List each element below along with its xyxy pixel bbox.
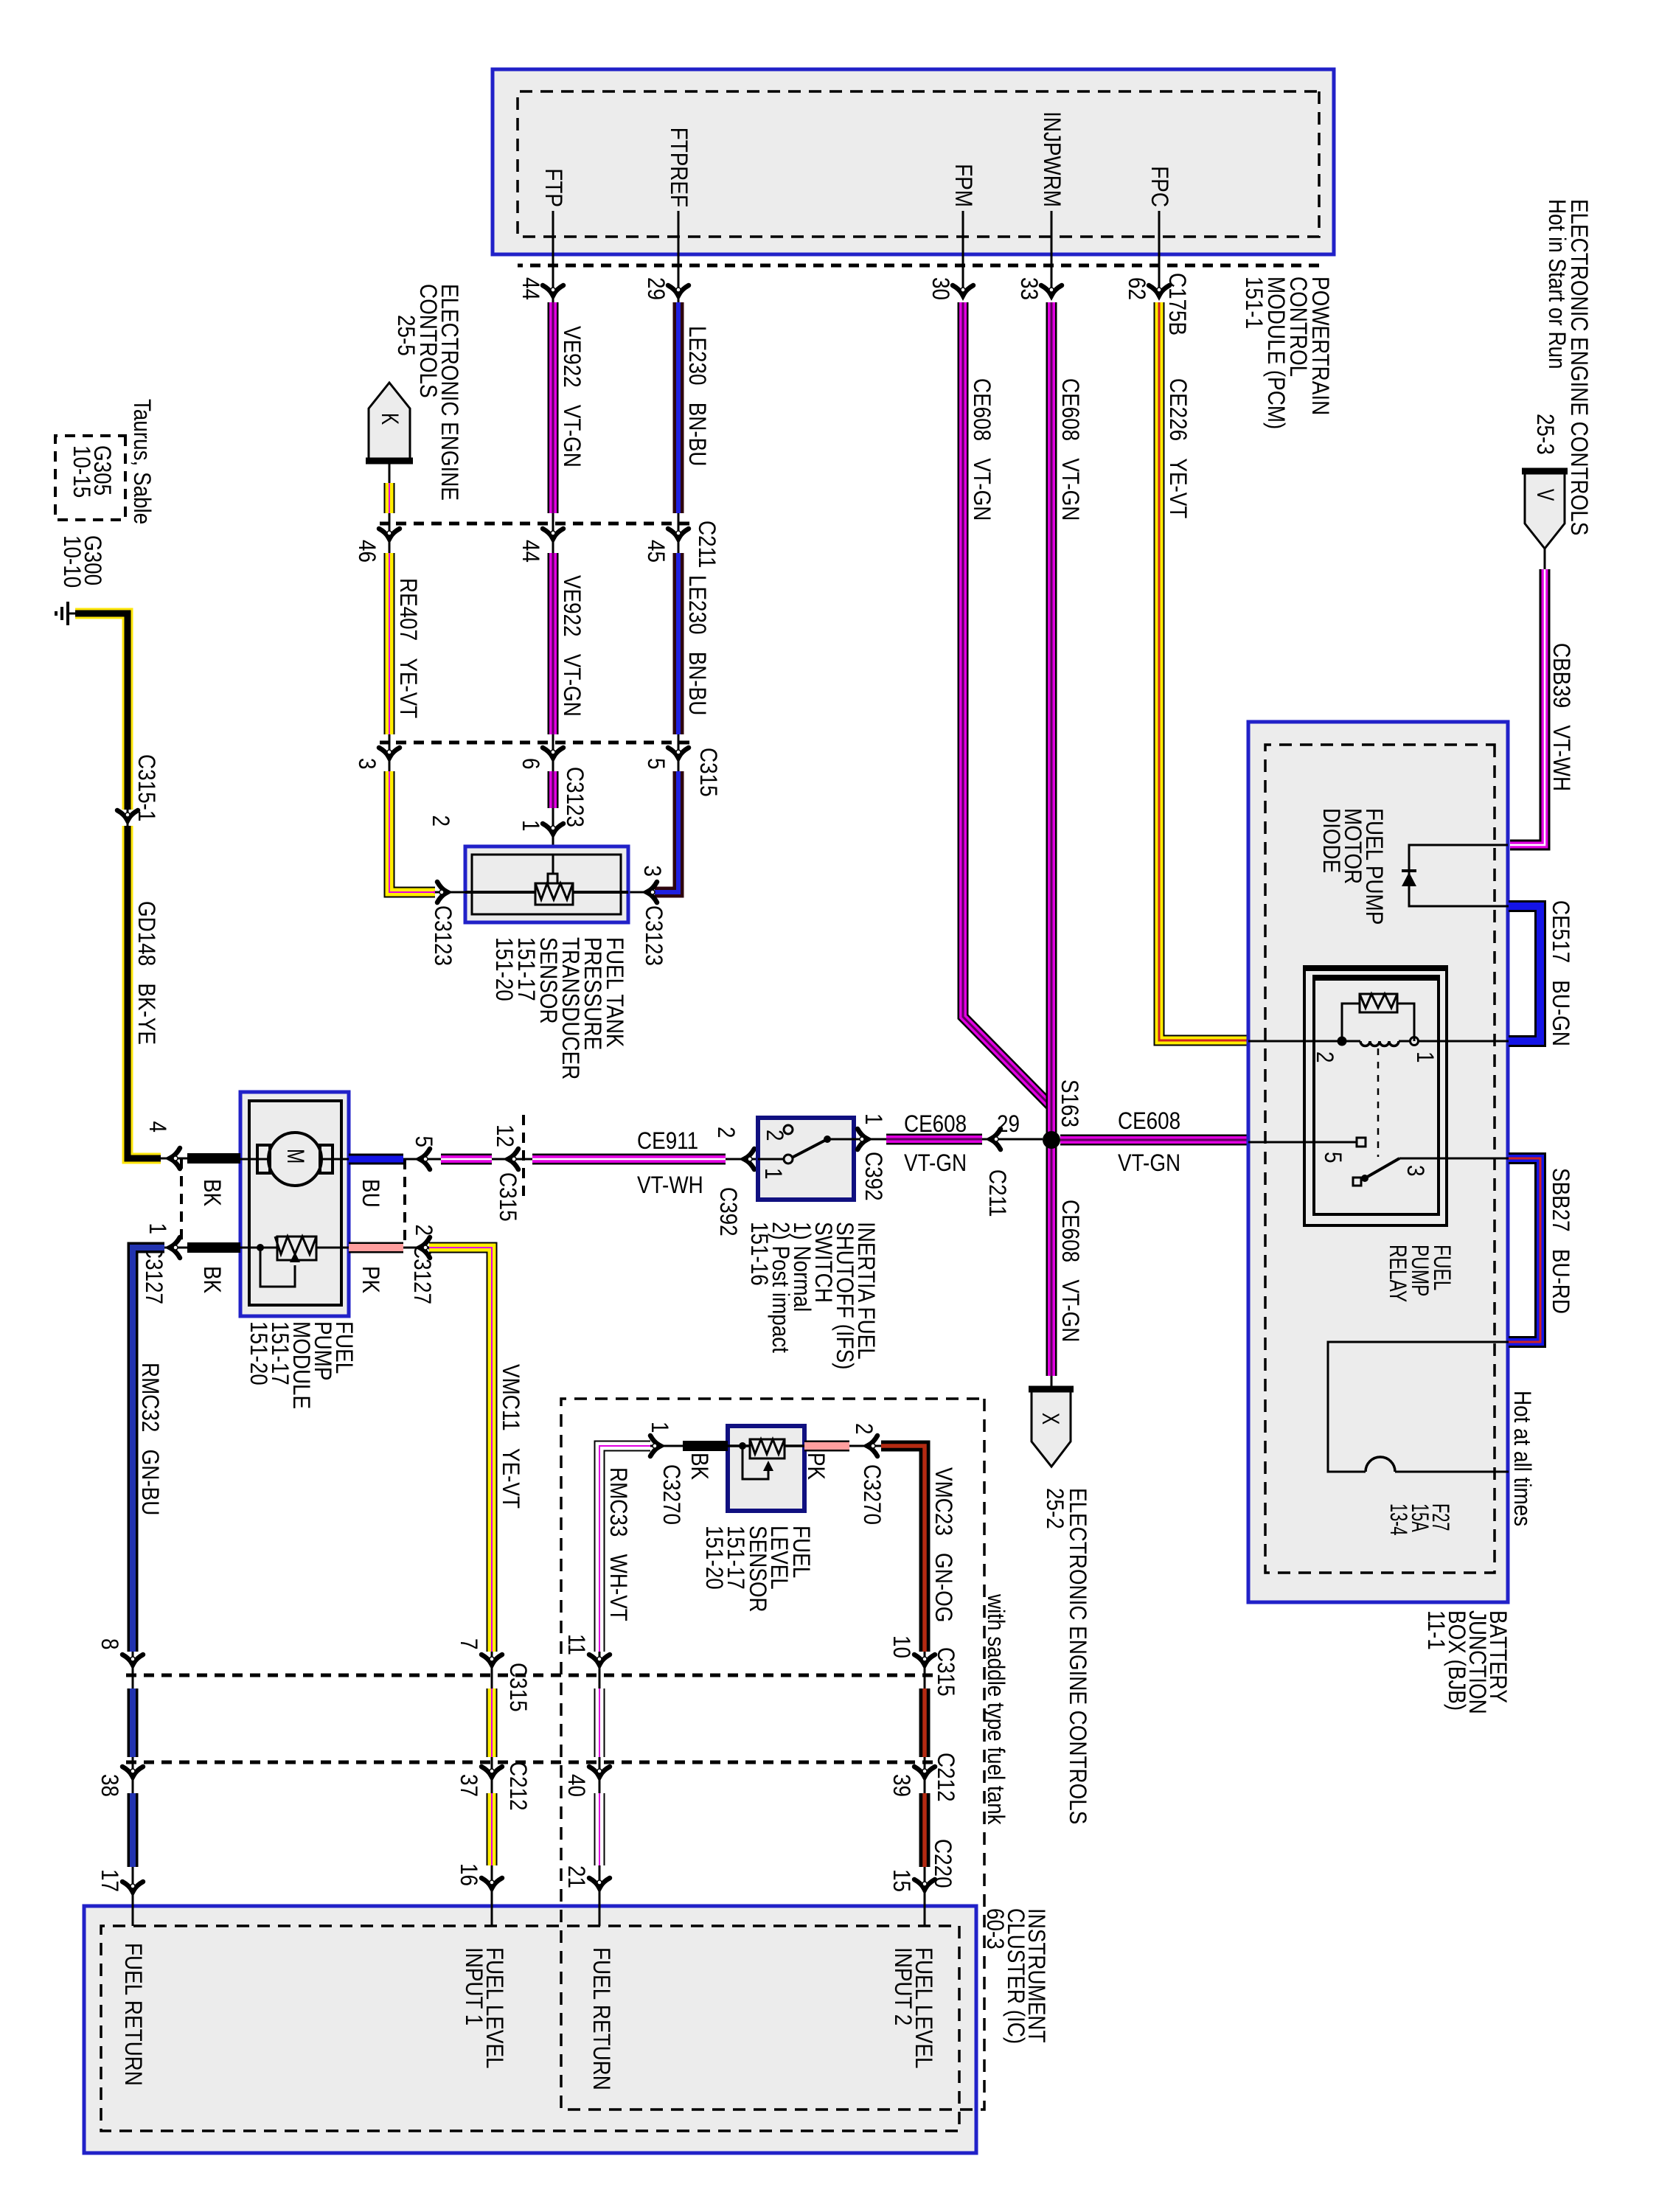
wire CE226 YE-VT (FPC pin 62) to BJB [1159, 302, 1247, 1040]
svg-text:with saddle type fuel tank: with saddle type fuel tank [983, 1593, 1009, 1825]
svg-text:15: 15 [888, 1869, 915, 1892]
svg-text:C315-1: C315-1 [133, 754, 160, 821]
svg-text:CE608: CE608 [904, 1110, 967, 1137]
svg-text:FUEL RETURN: FUEL RETURN [120, 1943, 147, 2086]
svg-text:11-1: 11-1 [1423, 1610, 1450, 1650]
svg-text:C211: C211 [984, 1169, 1011, 1217]
wire VMC11 segment 3 [487, 1793, 498, 1865]
wire CE608 VT-GN (INJPWRM pin 33) to S163 and on to X [1046, 302, 1057, 1376]
relay pin 5 [1248, 1141, 1357, 1144]
fuel sender variable resistor [240, 1247, 349, 1249]
box INSTRUMENT CLUSTER (IC) [84, 1906, 976, 2153]
off-page connector K [366, 383, 413, 461]
svg-text:2: 2 [1312, 1051, 1338, 1063]
svg-text:30: 30 [928, 277, 954, 300]
splice S163 [1043, 1131, 1060, 1149]
connector C211 (pin 29) [985, 1129, 1001, 1150]
svg-text:17: 17 [97, 1869, 123, 1892]
svg-text:8: 8 [97, 1638, 123, 1650]
svg-text:ELECTRONIC ENGINE CONTROLS: ELECTRONIC ENGINE CONTROLS [1065, 1488, 1091, 1824]
svg-text:VT-GN: VT-GN [904, 1150, 967, 1176]
svg-text:BK: BK [199, 1179, 226, 1206]
svg-text:S163: S163 [1057, 1079, 1083, 1127]
FLS resistor [750, 1439, 785, 1458]
pin 2 wire PK [349, 1242, 403, 1253]
IFS internals [758, 1158, 783, 1161]
wire RMC33 WH-VT [599, 1446, 650, 1652]
box with saddle type fuel tank (dashed) [561, 1399, 984, 2110]
svg-text:PK: PK [358, 1266, 384, 1293]
wire LE230 BN-BU segment 1 [673, 302, 684, 513]
svg-text:45: 45 [643, 540, 669, 563]
svg-text:1: 1 [860, 1113, 887, 1125]
svg-text:LE230 BN-BU: LE230 BN-BU [684, 326, 711, 466]
box BATTERY JUNCTION BOX (BJB) [1248, 722, 1508, 1602]
connector line C175B (dashed) [518, 264, 1319, 268]
svg-text:C392: C392 [860, 1152, 887, 1201]
connector C3127 dashed links [180, 1158, 183, 1248]
svg-text:RMC33 WH-VT: RMC33 WH-VT [605, 1467, 632, 1621]
svg-text:C3123: C3123 [641, 905, 667, 966]
svg-text:5: 5 [1320, 1152, 1346, 1164]
wire VMC23 segment 2 [914, 1655, 935, 1670]
pin 2 wire (bottom) [444, 891, 465, 894]
svg-text:3: 3 [354, 758, 380, 770]
svg-text:1: 1 [647, 1422, 673, 1433]
svg-text:FTP: FTP [540, 168, 567, 207]
sensor FUEL TANK PRESSURE TRANSDUCER box [465, 846, 628, 922]
svg-text:CBB39 VT-WH: CBB39 VT-WH [1548, 643, 1575, 791]
wire CE911 VT-WH segment b [532, 1154, 726, 1165]
svg-text:GD148 BK-YE: GD148 BK-YE [133, 901, 160, 1045]
diode FUEL PUMP MOTOR DIODE [1402, 869, 1416, 872]
FLS pin 2 wire PK [804, 1441, 849, 1452]
svg-text:10-10: 10-10 [59, 535, 86, 588]
svg-text:C212: C212 [505, 1761, 532, 1811]
svg-text:39: 39 [888, 1774, 915, 1797]
wire LE230 BN-BU segment 2 [673, 553, 684, 734]
svg-text:C212: C212 [933, 1753, 959, 1802]
svg-text:Hot at all times: Hot at all times [1509, 1391, 1536, 1526]
wiper square and pin 1 line [548, 874, 557, 883]
wire CE608 VT-GN (FPM pin 30) with diagonal merge [963, 302, 1050, 1105]
svg-text:12: 12 [492, 1124, 518, 1147]
svg-text:2: 2 [411, 1225, 437, 1237]
svg-text:C315: C315 [695, 748, 722, 797]
svg-text:151-1: 151-1 [1241, 276, 1267, 329]
svg-text:CE608: CE608 [1118, 1107, 1180, 1134]
connector line C211 (dashed) [380, 522, 689, 526]
svg-text:CE517 BU-GN: CE517 BU-GN [1548, 900, 1574, 1046]
svg-text:X: X [1037, 1413, 1064, 1425]
wire RE407 YE-VT segment 2 [384, 553, 395, 734]
svg-text:RELAY: RELAY [1385, 1245, 1411, 1302]
svg-text:SBB27 BU-RD: SBB27 BU-RD [1548, 1168, 1574, 1314]
motor M symbol [318, 1158, 349, 1161]
svg-text:C3270: C3270 [859, 1464, 886, 1525]
resistor element [535, 883, 573, 905]
wire RE407 corner segment to sensor pin 2 [389, 887, 435, 898]
relay switch arm pin 3 [1361, 1175, 1368, 1182]
svg-text:FUEL RETURN: FUEL RETURN [588, 1947, 615, 2090]
wire LE230 segment 3 with corner to sensor pin 3 [655, 771, 678, 892]
svg-text:7: 7 [456, 1638, 482, 1650]
svg-text:151-16: 151-16 [746, 1222, 773, 1286]
svg-text:1: 1 [1412, 1051, 1439, 1063]
svg-text:BU: BU [358, 1179, 384, 1208]
svg-text:C392: C392 [715, 1187, 742, 1237]
svg-text:VMC23 GN-OG: VMC23 GN-OG [931, 1467, 957, 1622]
wire VE922 VT-GN segment 2 [548, 553, 559, 734]
svg-text:40: 40 [563, 1774, 590, 1797]
connector line C212 (dashed) [122, 1761, 933, 1764]
svg-text:44: 44 [518, 277, 544, 300]
svg-text:29: 29 [997, 1110, 1020, 1137]
FLS pin 1 wire BK [683, 1441, 728, 1451]
svg-text:13-4: 13-4 [1385, 1503, 1412, 1536]
svg-text:V: V [1532, 489, 1559, 501]
svg-text:10: 10 [888, 1635, 915, 1658]
relay coil line [1399, 1040, 1509, 1043]
svg-text:VE922 VT-GN: VE922 VT-GN [559, 575, 585, 717]
svg-text:25-5: 25-5 [393, 315, 420, 356]
connector CE517 BU-GN [1509, 906, 1540, 1041]
connector C315-1 [117, 810, 138, 826]
svg-text:62: 62 [1124, 277, 1150, 300]
svg-text:VMC11 YE-VT: VMC11 YE-VT [498, 1364, 524, 1509]
svg-text:BK: BK [686, 1453, 713, 1480]
svg-text:M: M [282, 1149, 309, 1164]
wire CE911 VT-WH segment a [441, 1154, 492, 1165]
svg-text:FPC: FPC [1147, 166, 1173, 207]
ground wire GD148 BK-YE segment 1 [75, 613, 128, 810]
svg-text:2: 2 [851, 1423, 877, 1435]
switch INERTIA FUEL SHUTOFF (IFS) box [758, 1118, 854, 1200]
wire RMC32 GN-BU [133, 1248, 164, 1652]
svg-text:C211: C211 [694, 521, 720, 568]
relay FUEL PUMP RELAY box [1304, 968, 1447, 1225]
svg-text:RMC32 GN-BU: RMC32 GN-BU [137, 1363, 164, 1515]
wire VE922 segment 3 to C3123 [548, 771, 559, 808]
svg-text:6: 6 [518, 758, 544, 770]
svg-text:INPUT 2: INPUT 2 [890, 1947, 917, 2025]
svg-text:RE407 YE-VT: RE407 YE-VT [395, 578, 422, 718]
connector C315 (pin 12) [522, 1115, 525, 1203]
svg-text:FPM: FPM [950, 164, 977, 207]
svg-text:5: 5 [411, 1136, 437, 1148]
svg-text:C3123: C3123 [562, 767, 588, 827]
sensor FUEL LEVEL SENSOR box [728, 1426, 804, 1511]
pin 5 wire BU [349, 1154, 403, 1165]
svg-text:INJPWRM: INJPWRM [1039, 111, 1065, 207]
IC pin stubs [132, 1896, 134, 1926]
svg-text:PK: PK [803, 1453, 829, 1480]
module PCM box [493, 69, 1334, 254]
wire RE407 YE-VT segment 3 corner to sensor pin 2 [389, 771, 434, 892]
svg-text:1: 1 [760, 1168, 787, 1180]
svg-text:151-20: 151-20 [491, 937, 518, 1001]
svg-text:25-2: 25-2 [1042, 1488, 1068, 1529]
wire VMC11 YE-VT [429, 1248, 492, 1652]
svg-text:C315: C315 [505, 1663, 532, 1712]
wire CBB39 VT-WH [1510, 569, 1545, 845]
svg-text:2: 2 [428, 815, 454, 827]
connector line C315 (bottom, dashed) [122, 1674, 933, 1677]
svg-text:44: 44 [518, 540, 544, 563]
svg-text:29: 29 [643, 277, 669, 300]
svg-text:38: 38 [97, 1774, 123, 1797]
svg-text:CE608 VT-GN: CE608 VT-GN [969, 378, 995, 521]
wire RMC32 segment 2 [122, 1655, 143, 1670]
svg-text:16: 16 [456, 1863, 482, 1886]
svg-text:25-3: 25-3 [1532, 414, 1559, 455]
svg-text:C315: C315 [495, 1172, 521, 1222]
svg-text:Taurus, Sable: Taurus, Sable [129, 399, 156, 524]
off-page connector X [1029, 1389, 1074, 1467]
wire stub from V [1544, 549, 1546, 569]
wire RMC32 segment 3 [128, 1793, 139, 1867]
wire VMC11 segment 2 [481, 1655, 502, 1670]
pin 1 wire BK [187, 1242, 240, 1253]
svg-text:BK: BK [199, 1266, 226, 1293]
svg-text:21: 21 [563, 1865, 590, 1888]
connector line C315 (dashed) [380, 741, 689, 745]
wire VMC23 segment 3 [919, 1793, 931, 1867]
svg-text:11: 11 [563, 1634, 590, 1655]
wire RMC33 segment 2 [589, 1655, 610, 1670]
wire VE922 VT-GN segment 1 [548, 302, 559, 513]
off-page connector V [1522, 471, 1568, 549]
svg-text:2: 2 [713, 1127, 740, 1138]
pin 4 wire BK [187, 1153, 240, 1164]
svg-text:LE230 BN-BU: LE230 BN-BU [684, 575, 711, 715]
svg-text:K: K [377, 413, 403, 425]
svg-text:1: 1 [145, 1223, 171, 1235]
ground wire GD148 BK-YE segment 2 [128, 826, 161, 1158]
svg-text:CE608 VT-GN: CE608 VT-GN [1057, 1200, 1084, 1342]
svg-text:33: 33 [1016, 277, 1043, 300]
wire stub to X connector [1051, 1376, 1053, 1389]
svg-text:1: 1 [518, 820, 544, 832]
wire RE407 YE-VT segment 1 [384, 483, 395, 513]
svg-text:4: 4 [145, 1121, 171, 1133]
svg-text:5: 5 [643, 758, 669, 770]
ground G300 [68, 613, 75, 615]
sensor main line [465, 891, 628, 894]
svg-text:Hot in Start or Run: Hot in Start or Run [1544, 199, 1571, 369]
svg-text:151-20: 151-20 [246, 1321, 272, 1385]
svg-text:2: 2 [762, 1130, 788, 1141]
svg-text:C3270: C3270 [658, 1464, 685, 1525]
wire CE608 VT-GN (IFS to S163) [886, 1134, 982, 1145]
diode loop wire [1409, 845, 1509, 906]
svg-text:CE911: CE911 [637, 1127, 698, 1154]
wire VMC23 GN-OG [881, 1446, 925, 1652]
fuse F27 circuit [1328, 1342, 1509, 1472]
relay actuation dashed [1377, 1048, 1380, 1157]
svg-text:FTPREF: FTPREF [666, 128, 692, 207]
wire RMC33 segment 3 [594, 1793, 605, 1865]
svg-text:C175B: C175B [1164, 273, 1191, 335]
wire CE608 VT-GN (S163 to BJB relay) [1060, 1135, 1247, 1146]
svg-text:C3123: C3123 [430, 905, 456, 966]
svg-text:3: 3 [1402, 1165, 1429, 1177]
svg-text:46: 46 [354, 540, 380, 563]
svg-text:VT-WH: VT-WH [637, 1172, 703, 1198]
svg-text:VE922 VT-GN: VE922 VT-GN [559, 326, 585, 467]
relay resistor (parallel) [1397, 1004, 1414, 1041]
node G305 box [55, 436, 125, 520]
svg-text:CE608 VT-GN: CE608 VT-GN [1057, 378, 1084, 521]
svg-text:37: 37 [456, 1774, 482, 1797]
svg-text:DIODE: DIODE [1318, 808, 1345, 873]
svg-text:60-3: 60-3 [982, 1908, 1009, 1950]
svg-text:INPUT 1: INPUT 1 [461, 1947, 487, 2025]
svg-text:151-20: 151-20 [701, 1526, 728, 1590]
module FUEL PUMP MODULE box [240, 1092, 349, 1316]
svg-text:VT-GN: VT-GN [1118, 1150, 1180, 1176]
PCM inner dashed outline [518, 91, 1319, 237]
svg-text:C315: C315 [933, 1647, 959, 1697]
svg-text:10-15: 10-15 [69, 445, 95, 498]
connector SBB27 BU-RD [1509, 1158, 1540, 1342]
svg-text:CE226 YE-VT: CE226 YE-VT [1165, 378, 1192, 518]
connector C392 (pin 1) [854, 1138, 864, 1141]
svg-text:3: 3 [639, 866, 666, 877]
